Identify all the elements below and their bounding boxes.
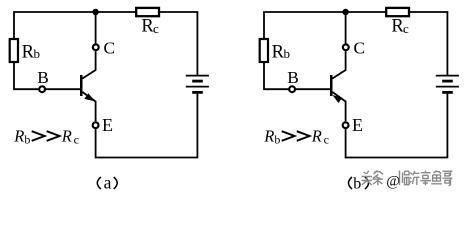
svg-text:b: b xyxy=(353,175,361,192)
svg-text:@: @ xyxy=(386,173,400,189)
svg-text:a: a xyxy=(104,172,112,192)
